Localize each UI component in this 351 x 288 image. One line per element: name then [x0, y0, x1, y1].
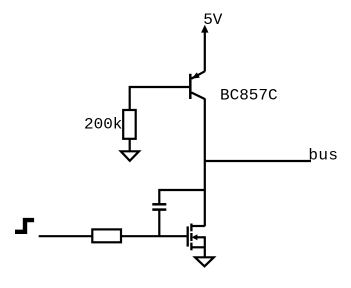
svg-text:bus: bus: [308, 147, 338, 165]
transistor Q1 BC857C (PNP): [190, 71, 205, 99]
wire R1 to ground: [129, 139, 131, 152]
power symbol 5V arrow: [201, 25, 208, 72]
ground below M1: [195, 257, 214, 266]
input step source symbol: [15, 220, 34, 232]
transistor M1 NMOS: [188, 224, 205, 251]
capacitor C1: [152, 204, 166, 209]
wire base to R1 corner: [130, 87, 190, 111]
svg-text:BC857C: BC857C: [220, 87, 278, 105]
wire collector vertical: [204, 99, 206, 227]
resistor R1 200k: [123, 110, 136, 139]
wire M1 source to ground: [204, 236, 206, 257]
wire R2 to M1 gate: [121, 235, 187, 237]
wire bus: [205, 160, 311, 162]
wire input to R2: [39, 235, 93, 237]
svg-text:200k: 200k: [84, 116, 122, 134]
wire cap branch: [159, 190, 205, 204]
wire C1 to input wire: [158, 210, 160, 237]
svg-text:5V: 5V: [203, 11, 223, 29]
resistor R2: [92, 229, 121, 242]
ground below R1: [121, 151, 139, 161]
